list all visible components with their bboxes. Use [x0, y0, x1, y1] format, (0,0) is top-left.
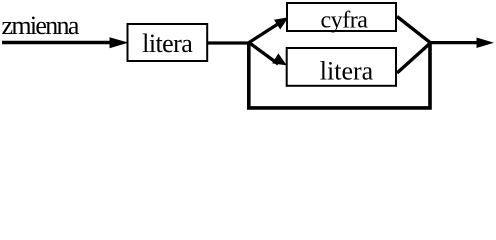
svg-text:cyfra: cyfra — [320, 8, 368, 34]
svg-text:litera: litera — [142, 29, 193, 58]
svg-text:zmienna: zmienna — [2, 11, 80, 40]
svg-text:litera: litera — [320, 57, 374, 86]
